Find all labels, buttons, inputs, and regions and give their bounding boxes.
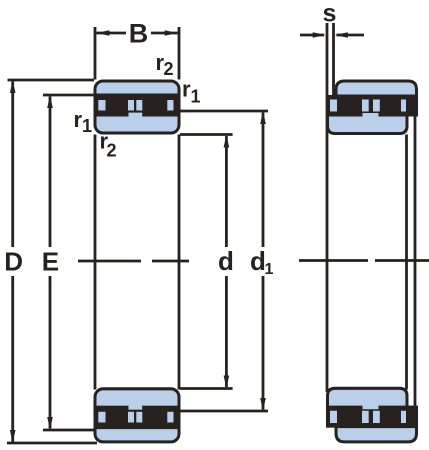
rollers zone (dark strip) — [94, 406, 181, 429]
s left arrow — [313, 32, 326, 38]
bearing right, bottom cross-section (mirrored) — [326, 388, 418, 442]
bearing left, top cross-section — [94, 81, 181, 133]
outer+inner ring body — [95, 389, 179, 442]
inner ring right face line of right bearing — [405, 135, 408, 390]
d1 bottom extension — [180, 410, 268, 413]
outer ring right face line of right bearing — [414, 96, 417, 428]
window 3 — [373, 411, 380, 423]
outer+inner ring body — [95, 81, 179, 133]
E top extension — [43, 94, 94, 97]
outer ring — [336, 427, 417, 442]
window 1 — [330, 411, 337, 423]
window 3 — [373, 100, 380, 112]
svg-text:d: d — [250, 246, 266, 276]
inner ring left face line of right bearing / s left extension — [326, 23, 329, 392]
outer ring — [336, 81, 417, 96]
center notch — [363, 404, 379, 410]
rollers zone — [326, 406, 418, 428]
B dimension line — [96, 32, 177, 35]
D top extension — [8, 79, 95, 82]
d top arrow — [224, 135, 230, 148]
E top arrow — [47, 95, 53, 108]
bearing left, bottom cross-section (mirrored) — [94, 389, 181, 442]
center notch — [129, 113, 143, 119]
d dimension line — [225, 136, 228, 387]
svg-text:s: s — [323, 0, 337, 28]
right face line of left bearing / B right extension — [178, 27, 181, 390]
svg-text:2: 2 — [107, 141, 117, 161]
d1 top extension — [180, 110, 268, 113]
inner ring — [328, 388, 408, 407]
D dimension line — [11, 82, 14, 443]
redraw zone over fill — [95, 406, 180, 429]
rollers zone (dark strip) — [94, 94, 181, 117]
left face line of left bearing / B left extension — [94, 27, 97, 390]
zone redraw — [326, 95, 418, 117]
d top extension — [180, 133, 233, 136]
B left arrow — [96, 30, 109, 36]
arrowheads — [10, 30, 348, 443]
bearing right, top cross-section — [326, 81, 418, 134]
window 2 — [128, 412, 134, 423]
svg-text:D: D — [4, 247, 23, 277]
d bottom arrow — [224, 376, 230, 389]
inner ring — [328, 115, 408, 134]
svg-text:d: d — [218, 246, 234, 276]
d1 bottom arrow — [260, 398, 266, 411]
D bottom arrow — [10, 430, 16, 443]
window 2 — [362, 100, 369, 112]
E bottom arrow — [47, 417, 53, 430]
center notch — [129, 404, 143, 410]
window 4 — [167, 412, 173, 423]
s right extension line — [332, 23, 335, 95]
B right arrow — [165, 30, 178, 36]
D top arrow — [10, 80, 16, 93]
svg-text:1: 1 — [191, 87, 201, 107]
d bottom extension — [180, 387, 233, 390]
center notch — [363, 113, 379, 119]
rollers zone — [326, 95, 418, 117]
window 4 — [401, 411, 406, 423]
window 1 — [98, 412, 105, 423]
window 4 — [167, 100, 173, 111]
window 1 — [330, 100, 337, 112]
s right arrow — [335, 32, 348, 38]
svg-text:E: E — [42, 247, 59, 277]
E dimension line — [49, 97, 52, 429]
window 1 — [98, 100, 105, 111]
s arrow lines — [300, 34, 364, 37]
window 2 — [362, 411, 369, 423]
d1 top arrow — [260, 111, 266, 124]
D bottom extension — [7, 442, 97, 445]
window 2 — [128, 100, 134, 111]
svg-text:B: B — [129, 19, 149, 49]
window 3 — [136, 412, 142, 423]
svg-text:1: 1 — [82, 116, 92, 136]
d1 dimension line — [262, 113, 265, 410]
centerline left — [78, 260, 189, 263]
centerline right — [299, 259, 429, 262]
E bottom extension — [43, 429, 94, 432]
redraw zone over fill — [95, 94, 180, 117]
svg-text:1: 1 — [265, 261, 274, 278]
svg-text:2: 2 — [164, 59, 174, 79]
window 4 — [401, 100, 406, 112]
zone redraw — [326, 406, 418, 428]
window 3 — [136, 100, 142, 111]
